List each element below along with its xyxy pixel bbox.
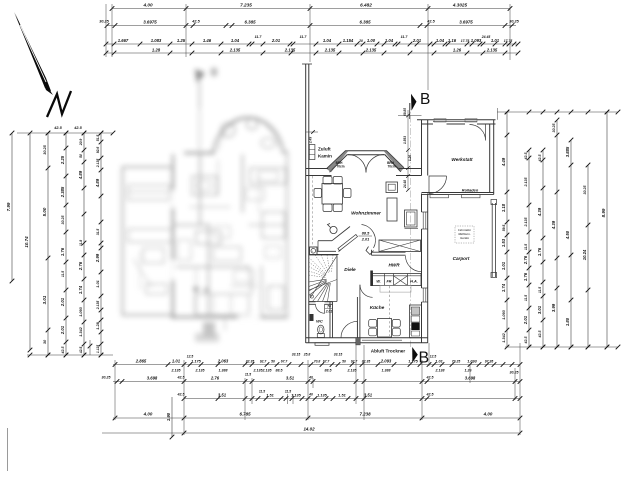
svg-text:2.135: 2.135 — [262, 369, 273, 373]
svg-text:70cm: 70cm — [336, 165, 344, 169]
svg-text:1.46: 1.46 — [203, 38, 212, 43]
svg-text:3.01: 3.01 — [42, 295, 47, 304]
svg-text:4.89: 4.89 — [95, 178, 100, 188]
right chain C — [537, 148, 545, 350]
svg-text:7.235: 7.235 — [240, 2, 252, 7]
svg-text:2.135: 2.135 — [96, 159, 100, 169]
svg-text:33.15: 33.15 — [334, 353, 343, 357]
svg-text:2.135: 2.135 — [171, 369, 182, 373]
svg-text:Küche: Küche — [370, 305, 385, 311]
WC door — [316, 304, 325, 313]
under-counter — [380, 286, 411, 293]
svg-text:30.25: 30.25 — [99, 20, 109, 24]
top dimension chain row 4 (openings) — [104, 47, 521, 55]
shelf along east living wall — [387, 198, 397, 221]
svg-text:H.A.: H.A. — [410, 280, 418, 284]
svg-text:88.5: 88.5 — [325, 369, 333, 373]
interior dimension chain at Werkstatt corridor — [398, 108, 422, 192]
top block extension lines — [106, 4, 510, 120]
svg-text:20: 20 — [358, 39, 363, 43]
svg-text:11.7: 11.7 — [255, 35, 263, 39]
right chain D — [551, 118, 559, 350]
svg-text:1.388: 1.388 — [382, 369, 391, 373]
svg-text:10.74: 10.74 — [24, 236, 29, 248]
svg-text:1.26: 1.26 — [465, 369, 473, 373]
svg-text:1.01: 1.01 — [491, 38, 500, 43]
svg-text:6.482: 6.482 — [360, 2, 372, 7]
bay window right window + BRH 70cm — [386, 156, 400, 170]
svg-text:42.5: 42.5 — [79, 347, 83, 355]
carport east post line — [491, 200, 497, 278]
svg-text:67.7: 67.7 — [323, 359, 331, 363]
north wall west flank — [306, 169, 332, 176]
svg-text:1.593: 1.593 — [403, 136, 407, 144]
svg-text:40: 40 — [308, 376, 313, 380]
svg-text:82.35: 82.35 — [246, 359, 255, 363]
svg-text:42.5: 42.5 — [426, 20, 435, 24]
TV lowboard — [405, 210, 419, 229]
Werkstatt north wall with window — [417, 119, 496, 124]
left chain 7.99 — [6, 131, 14, 284]
left chain detail C — [95, 131, 103, 358]
svg-text:92.7: 92.7 — [260, 359, 268, 363]
svg-text:42.5: 42.5 — [53, 126, 62, 130]
left chain 10.74 — [24, 131, 32, 353]
winder staircase — [309, 255, 337, 302]
wall Diele/Wohnzimmer horizontal part — [317, 241, 339, 255]
svg-text:14.02: 14.02 — [303, 427, 315, 432]
svg-text:3.51: 3.51 — [286, 375, 295, 380]
svg-text:1.342: 1.342 — [79, 326, 83, 336]
right dimension block bottom connector — [505, 345, 620, 350]
storage cabinet with X (Diele) — [379, 240, 421, 252]
svg-text:2.135: 2.135 — [324, 47, 336, 52]
dining table — [322, 184, 343, 205]
svg-text:Wohnzimmer: Wohnzimmer — [351, 211, 382, 217]
west exterior wall — [302, 64, 312, 343]
svg-text:2.135: 2.135 — [365, 47, 377, 52]
top dimension chain row 3 (detail) — [104, 35, 521, 46]
blurred left building half (privacy blur) — [123, 68, 288, 342]
svg-text:3.51: 3.51 — [364, 392, 373, 397]
bottom dimension chain row 5 (overall 14.02) — [102, 427, 522, 436]
kitchen table — [378, 319, 392, 338]
left chain 5.00 — [42, 131, 50, 358]
svg-text:Carport: Carport — [453, 256, 470, 261]
svg-text:2.093: 2.093 — [380, 358, 392, 363]
svg-text:30.25: 30.25 — [552, 123, 556, 133]
svg-text:42.5: 42.5 — [524, 152, 528, 161]
svg-text:2.01: 2.01 — [271, 38, 281, 43]
svg-text:1.342: 1.342 — [502, 332, 506, 342]
svg-text:1.115: 1.115 — [96, 345, 100, 353]
svg-text:1.01: 1.01 — [96, 280, 100, 287]
svg-text:4.39: 4.39 — [537, 207, 542, 217]
svg-text:24.48: 24.48 — [403, 180, 407, 189]
svg-text:69.85: 69.85 — [403, 108, 407, 116]
svg-text:1.53: 1.53 — [501, 238, 506, 247]
svg-text:70cm: 70cm — [387, 165, 395, 169]
Werkstatt door west — [429, 176, 447, 194]
svg-text:42.5: 42.5 — [426, 393, 435, 397]
svg-text:17.75: 17.75 — [461, 39, 470, 43]
svg-text:88.5: 88.5 — [276, 369, 284, 373]
svg-text:WC: WC — [316, 319, 323, 324]
svg-text:7.99: 7.99 — [6, 202, 11, 211]
svg-text:2.865: 2.865 — [135, 358, 147, 363]
svg-text:3.99: 3.99 — [551, 303, 556, 312]
svg-text:79.25: 79.25 — [452, 359, 461, 363]
svg-text:1.26: 1.26 — [408, 155, 412, 161]
svg-text:8.99: 8.99 — [601, 208, 606, 217]
section line B-B — [409, 103, 411, 347]
svg-text:1.28: 1.28 — [152, 47, 161, 52]
svg-text:2.135: 2.135 — [96, 301, 100, 311]
svg-text:2.76: 2.76 — [523, 255, 528, 265]
svg-text:1.135: 1.135 — [317, 393, 327, 397]
svg-text:1.18: 1.18 — [501, 203, 506, 212]
bottom block extension lines — [115, 340, 520, 439]
svg-text:1.093: 1.093 — [502, 309, 506, 319]
svg-text:11.8: 11.8 — [79, 240, 83, 246]
svg-text:B: B — [420, 91, 430, 108]
svg-text:25.8: 25.8 — [303, 353, 311, 357]
kitchen chairs — [369, 320, 401, 336]
svg-text:3.6975: 3.6975 — [459, 19, 473, 24]
svg-text:3.698: 3.698 — [465, 375, 476, 380]
bottom dimension chain row 2 — [102, 371, 523, 384]
svg-text:1.04: 1.04 — [323, 38, 332, 43]
svg-text:1.90: 1.90 — [166, 412, 171, 421]
dashed overhang line west — [311, 176, 313, 252]
west wall dimension tick — [306, 130, 318, 144]
east wall window (HWR) — [422, 212, 428, 229]
right chain F — [582, 163, 590, 350]
svg-text:30.25: 30.25 — [509, 20, 519, 24]
svg-text:11.7: 11.7 — [401, 35, 409, 39]
svg-text:1.76: 1.76 — [537, 247, 542, 256]
svg-text:92.6: 92.6 — [96, 147, 100, 154]
svg-text:20.9: 20.9 — [79, 139, 83, 147]
svg-text:2.01: 2.01 — [412, 38, 422, 43]
appliance row W FR X H.A. — [370, 271, 421, 287]
kitchen west wall — [357, 297, 360, 338]
left chain detail B — [78, 131, 86, 358]
svg-text:4.00: 4.00 — [483, 412, 493, 417]
svg-text:Rolladen: Rolladen — [462, 187, 479, 192]
svg-text:Abluft Trockner: Abluft Trockner — [371, 349, 406, 354]
svg-text:1.51: 1.51 — [338, 393, 345, 397]
svg-text:42.5: 42.5 — [538, 330, 542, 339]
Rolladen roller door — [422, 187, 494, 198]
svg-text:70.8: 70.8 — [314, 359, 321, 363]
stove (Kaminofen) — [328, 224, 338, 234]
svg-text:1.093: 1.093 — [471, 38, 482, 43]
sideboard with picture — [386, 182, 398, 193]
svg-text:FR: FR — [386, 280, 391, 284]
svg-text:30.25: 30.25 — [61, 215, 65, 225]
svg-text:31.5: 31.5 — [96, 229, 100, 236]
svg-text:42.5: 42.5 — [426, 376, 435, 380]
svg-text:1.04: 1.04 — [436, 38, 445, 43]
svg-text:1.80: 1.80 — [565, 317, 570, 326]
bottom chain row 1 lower labels — [171, 369, 473, 373]
svg-text:2.01: 2.01 — [60, 297, 65, 307]
east wall window (Kueche) — [422, 288, 428, 302]
svg-text:Diele: Diele — [344, 267, 356, 273]
svg-text:6.385: 6.385 — [244, 19, 256, 24]
bottom dimension chain row 4 (totals) — [113, 412, 523, 421]
svg-text:4.49: 4.49 — [501, 157, 506, 167]
svg-text:42.5: 42.5 — [61, 346, 65, 355]
fireplace (Kamin) block — [310, 247, 318, 255]
svg-text:82.35: 82.35 — [362, 359, 371, 363]
svg-text:1.667: 1.667 — [118, 38, 129, 43]
svg-text:Geräte: Geräte — [460, 236, 469, 240]
bay window left window + BRH 70cm — [332, 156, 347, 170]
svg-text:24.45: 24.45 — [481, 35, 491, 39]
svg-text:2.135: 2.135 — [486, 47, 498, 52]
svg-text:2.063: 2.063 — [217, 358, 229, 363]
svg-text:4.39: 4.39 — [551, 220, 556, 230]
WC walls — [309, 302, 333, 338]
svg-text:1.01: 1.01 — [435, 359, 442, 363]
svg-text:2.01: 2.01 — [60, 325, 65, 335]
svg-text:2.49: 2.49 — [309, 137, 313, 144]
svg-text:17.75: 17.75 — [504, 39, 513, 43]
svg-text:1.154: 1.154 — [343, 38, 354, 43]
svg-text:42.5: 42.5 — [524, 336, 528, 345]
svg-text:11.5: 11.5 — [259, 389, 265, 393]
bottom dimension chain row 3 — [177, 389, 523, 401]
svg-text:1.76: 1.76 — [523, 272, 528, 281]
svg-text:3.01: 3.01 — [537, 305, 542, 314]
svg-text:Mülltonn.: Mülltonn. — [458, 232, 470, 236]
right chain B — [523, 148, 531, 350]
east exterior wall — [422, 120, 428, 343]
svg-text:1.093: 1.093 — [79, 306, 83, 316]
svg-text:2.135: 2.135 — [284, 47, 296, 52]
section marker B top — [410, 91, 431, 119]
svg-text:1.16: 1.16 — [448, 38, 457, 43]
svg-text:59.5: 59.5 — [502, 225, 506, 232]
Werkstatt east wall — [490, 120, 494, 195]
svg-text:76: 76 — [327, 305, 331, 309]
top dimension chain row 1 (storey totals) — [110, 2, 513, 11]
left dimension block top connector — [17, 126, 115, 135]
bay French double door — [348, 155, 384, 173]
svg-text:30.25: 30.25 — [583, 185, 587, 195]
svg-text:1.74: 1.74 — [78, 285, 83, 294]
svg-text:2.135: 2.135 — [195, 369, 206, 373]
svg-text:Zuluft: Zuluft — [318, 147, 331, 152]
top dimension chain row 2 — [99, 19, 519, 28]
svg-text:2.99: 2.99 — [95, 253, 100, 263]
HWR north wall — [372, 250, 406, 255]
WC door size 76/2.01 — [325, 305, 333, 314]
svg-text:1.01: 1.01 — [172, 358, 181, 363]
svg-text:42.5: 42.5 — [538, 154, 542, 163]
svg-text:1.76: 1.76 — [60, 247, 65, 256]
svg-text:Fahrräder: Fahrräder — [458, 228, 472, 232]
svg-text:1.00: 1.00 — [367, 38, 376, 43]
kitchen door — [360, 285, 373, 298]
svg-text:30.25: 30.25 — [102, 376, 112, 380]
svg-text:3.51: 3.51 — [218, 392, 227, 397]
svg-text:2.25: 2.25 — [60, 155, 65, 165]
svg-text:50: 50 — [342, 359, 346, 363]
svg-text:2.138: 2.138 — [435, 369, 445, 373]
north wall east flank — [396, 169, 422, 176]
svg-text:10.24: 10.24 — [582, 249, 587, 260]
left chain detail A — [60, 131, 68, 358]
svg-text:W.: W. — [376, 280, 380, 284]
svg-text:2.135: 2.135 — [524, 217, 528, 228]
svg-text:6.385: 6.385 — [359, 19, 371, 24]
svg-text:97.95: 97.95 — [485, 359, 494, 363]
svg-text:12.5: 12.5 — [187, 355, 194, 359]
svg-text:11.5: 11.5 — [61, 271, 65, 277]
svg-text:3.885: 3.885 — [565, 146, 570, 157]
south exterior wall — [306, 338, 428, 346]
right chain G — [601, 110, 609, 350]
svg-text:11.5: 11.5 — [524, 244, 528, 250]
svg-text:42.5: 42.5 — [73, 126, 82, 130]
svg-text:1.175: 1.175 — [191, 359, 201, 363]
svg-text:1.04: 1.04 — [231, 38, 240, 43]
svg-text:2.76: 2.76 — [210, 375, 220, 380]
svg-text:2.01: 2.01 — [325, 310, 333, 314]
svg-text:1.51: 1.51 — [266, 393, 273, 397]
svg-text:1.04: 1.04 — [385, 38, 394, 43]
svg-text:1.083: 1.083 — [151, 38, 162, 43]
svg-text:1.01: 1.01 — [501, 261, 506, 270]
svg-text:3.698: 3.698 — [147, 375, 158, 380]
svg-text:2.01: 2.01 — [523, 315, 528, 325]
svg-text:5.00: 5.00 — [42, 207, 47, 216]
svg-text:4.00: 4.00 — [142, 2, 152, 7]
page edge mark bottom left — [7, 428, 9, 471]
svg-text:2.385: 2.385 — [60, 186, 65, 198]
svg-text:4.00: 4.00 — [143, 412, 153, 417]
svg-text:4.50: 4.50 — [565, 230, 570, 240]
svg-text:6.785: 6.785 — [239, 412, 251, 417]
svg-text:Werkstatt: Werkstatt — [451, 157, 473, 162]
svg-text:1.74: 1.74 — [501, 283, 506, 292]
svg-text:51.5: 51.5 — [96, 135, 100, 142]
svg-text:2.135: 2.135 — [229, 47, 241, 52]
section marker B bottom — [412, 347, 429, 367]
svg-text:92.7: 92.7 — [351, 359, 359, 363]
svg-text:1.388: 1.388 — [219, 369, 228, 373]
svg-text:30.25: 30.25 — [43, 144, 47, 154]
svg-text:11.5: 11.5 — [245, 373, 251, 377]
svg-text:30.25: 30.25 — [510, 371, 520, 375]
diagonal wall with door — [332, 225, 375, 255]
svg-text:3.6975: 3.6975 — [143, 19, 157, 24]
svg-text:33.15: 33.15 — [292, 353, 301, 357]
svg-text:67.7: 67.7 — [281, 359, 289, 363]
svg-text:50: 50 — [79, 154, 83, 158]
svg-text:50: 50 — [271, 359, 275, 363]
svg-text:1.26: 1.26 — [453, 47, 462, 52]
carport bin storage (dashed) — [455, 226, 474, 243]
bottom dimension chain row 1 (detail) — [113, 353, 523, 367]
svg-text:1.28: 1.28 — [96, 321, 100, 329]
svg-text:11.5: 11.5 — [524, 295, 528, 301]
svg-text:88.5: 88.5 — [362, 231, 370, 236]
north arrow — [14, 12, 71, 117]
chimney shaft (Zuluft Kamin) — [309, 145, 332, 160]
dining chairs — [314, 177, 351, 212]
Werkstatt door north-east — [470, 125, 486, 141]
svg-text:11.7: 11.7 — [300, 35, 308, 39]
svg-text:Kamin: Kamin — [318, 154, 332, 159]
svg-text:12.5: 12.5 — [430, 355, 437, 359]
svg-text:HWR: HWR — [388, 263, 400, 268]
kitchen tall unit (oven tower) — [410, 305, 422, 338]
hall door to WC lobby — [341, 321, 357, 337]
right chain E — [565, 138, 573, 350]
svg-text:7.238: 7.238 — [359, 412, 371, 417]
svg-text:11.5: 11.5 — [538, 287, 542, 293]
svg-text:1.25: 1.25 — [177, 38, 186, 43]
toilet — [317, 325, 324, 337]
bay window (Erker) walls — [327, 151, 405, 172]
left block bottom connector — [27, 340, 113, 357]
svg-text:4.89: 4.89 — [78, 170, 83, 180]
kitchen axis dashed — [389, 286, 391, 336]
svg-text:2.01: 2.01 — [361, 237, 370, 242]
wash basin — [310, 314, 314, 321]
svg-text:B: B — [419, 350, 430, 367]
HWR door — [406, 256, 422, 272]
svg-text:42.5: 42.5 — [191, 20, 200, 24]
svg-text:40: 40 — [308, 393, 313, 397]
svg-text:2.135: 2.135 — [524, 177, 528, 188]
right dimension block top connector — [497, 110, 620, 115]
right chain A — [501, 110, 509, 350]
svg-text:2.76: 2.76 — [78, 261, 83, 271]
svg-text:1.093: 1.093 — [467, 359, 477, 363]
door size label 88.5/2.01 — [359, 231, 373, 242]
svg-text:4.3025: 4.3025 — [452, 2, 468, 7]
